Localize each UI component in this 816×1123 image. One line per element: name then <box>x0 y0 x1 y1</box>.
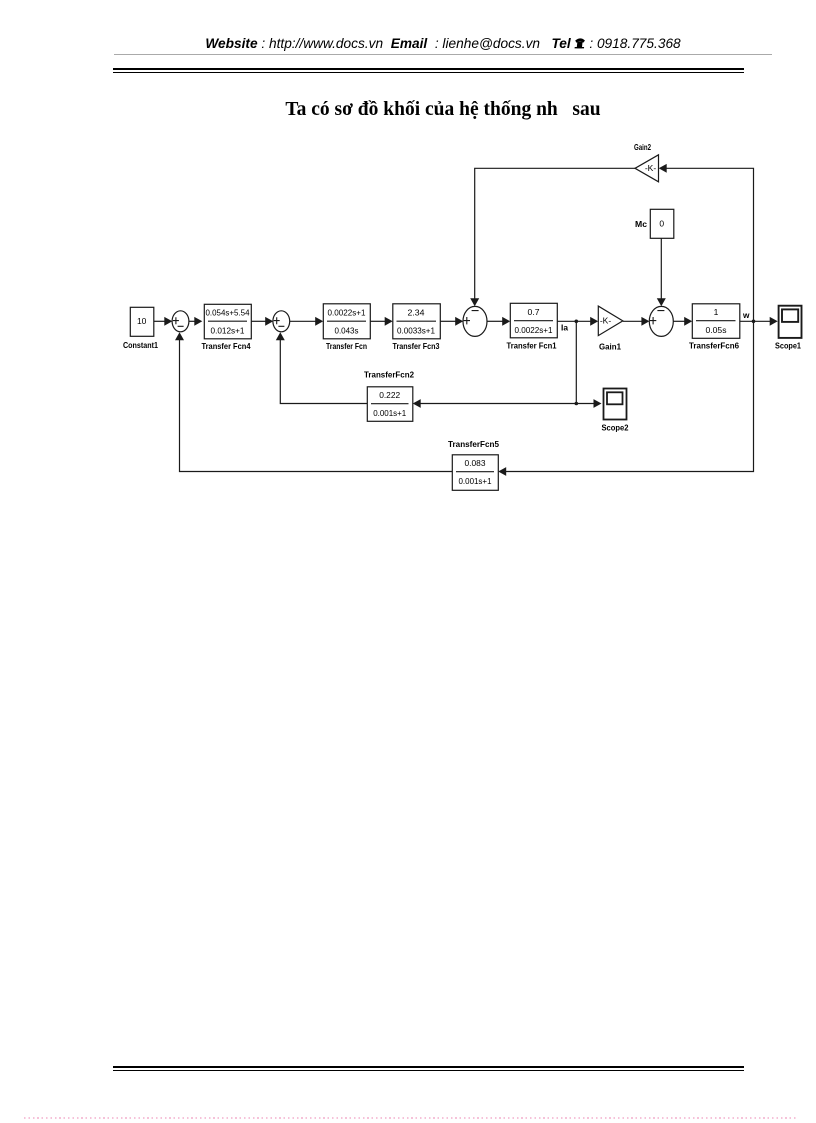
wire Constant1 to Sum1 <box>154 317 173 326</box>
block TransferFcn <box>323 304 370 339</box>
block TransferFcn5 (mirrored) <box>452 455 498 491</box>
svg-text:1: 1 <box>714 307 719 317</box>
svg-text:0: 0 <box>659 219 664 229</box>
wire Gain2 output down to Sum3 <box>470 168 635 306</box>
svg-text:Transfer Fcn: Transfer Fcn <box>326 341 367 351</box>
block TransferFcn3 <box>393 304 441 339</box>
block TransferFcn4 <box>204 304 251 339</box>
svg-text:0.0022s+1: 0.0022s+1 <box>328 307 366 317</box>
wire TransferFcn1 to Gain1 with Ia branch <box>557 317 598 326</box>
wire Sum1 to TransferFcn4 <box>189 317 202 326</box>
svg-text:-K-: -K- <box>600 316 612 326</box>
wire TransferFcn2 output to Sum2 <box>276 332 367 403</box>
svg-text:0.001s+1: 0.001s+1 <box>459 476 492 486</box>
wire Ia branch down to mid feedback with Scope2 tap <box>575 321 602 408</box>
wire TransferFcn4 to Sum2 <box>251 317 273 326</box>
svg-text:0.05s: 0.05s <box>706 325 727 335</box>
header contact line <box>205 36 680 51</box>
wire TransferFcn3 to Sum3 <box>440 317 463 326</box>
svg-text:TransferFcn6: TransferFcn6 <box>689 341 739 351</box>
svg-text:TransferFcn2: TransferFcn2 <box>364 370 414 380</box>
svg-text:Mc: Mc <box>635 219 647 229</box>
wire Sum2 to TransferFcn <box>290 317 324 326</box>
svg-text:0.0022s+1: 0.0022s+1 <box>515 325 553 335</box>
wire w branch down to outer feedback into TransferFcn5 input <box>498 321 753 476</box>
svg-text:0.043s: 0.043s <box>335 326 359 336</box>
svg-text:Gain1: Gain1 <box>599 342 621 352</box>
summing junction Sum4 <box>649 306 673 336</box>
summing junction Sum1 <box>172 311 189 332</box>
gain Gain1 <box>598 306 623 336</box>
gain Gain2 <box>635 155 659 182</box>
svg-text:0.222: 0.222 <box>379 390 400 400</box>
wire TransferFcn5 output to Sum1 <box>175 332 452 471</box>
svg-text:10: 10 <box>137 316 147 326</box>
svg-text:0.0033s+1: 0.0033s+1 <box>397 326 435 336</box>
wire Mc to Sum4 <box>657 238 666 306</box>
svg-text:Constant1: Constant1 <box>123 340 158 350</box>
svg-text:-K-: -K- <box>645 163 657 173</box>
thin gray rule under header <box>114 54 772 55</box>
svg-text:TransferFcn5: TransferFcn5 <box>448 439 499 449</box>
block TransferFcn1 <box>510 303 557 338</box>
page title <box>285 99 600 121</box>
block TransferFcn6 <box>692 304 740 339</box>
svg-text:0.7: 0.7 <box>528 307 540 317</box>
bottom double rule <box>113 1066 744 1068</box>
svg-text:Scope2: Scope2 <box>602 423 629 433</box>
svg-text:0.001s+1: 0.001s+1 <box>373 408 406 418</box>
svg-text:Transfer Fcn3: Transfer Fcn3 <box>393 341 440 351</box>
svg-text:0.083: 0.083 <box>465 458 486 468</box>
wire Sum3 to TransferFcn1 <box>487 317 510 326</box>
wire TransferFcn to TransferFcn3 <box>370 317 393 326</box>
wire TransferFcn6 to Scope1 with w branch <box>740 317 778 326</box>
svg-text:Transfer Fcn1: Transfer Fcn1 <box>507 341 557 351</box>
block TransferFcn2 (mirrored) <box>367 387 413 422</box>
top double rule <box>113 68 744 70</box>
bottom pink dotted rule <box>24 1117 796 1119</box>
svg-text:Transfer Fcn4: Transfer Fcn4 <box>202 341 251 351</box>
scope Scope2 <box>604 389 627 420</box>
svg-text:Ia: Ia <box>561 323 568 333</box>
summing junction Sum3 <box>463 306 487 336</box>
svg-text:w: w <box>742 310 750 320</box>
svg-text:2.34: 2.34 <box>408 307 425 317</box>
wire mid feedback into TransferFcn2 input <box>413 399 577 408</box>
wire right branch up to Gain2 input <box>659 164 754 321</box>
block Constant1 value 10 <box>130 307 154 336</box>
wire Gain1 to Sum4 <box>623 317 650 326</box>
block Mc constant 0 <box>650 209 674 238</box>
svg-text:Gain2: Gain2 <box>634 142 651 152</box>
wire Sum4 to TransferFcn6 <box>673 317 692 326</box>
scope Scope1 <box>779 306 802 338</box>
svg-text:0.054s+5.54: 0.054s+5.54 <box>206 307 250 317</box>
summing junction Sum2 <box>273 311 290 332</box>
svg-text:0.012s+1: 0.012s+1 <box>211 325 245 335</box>
svg-text:Scope1: Scope1 <box>775 341 801 351</box>
